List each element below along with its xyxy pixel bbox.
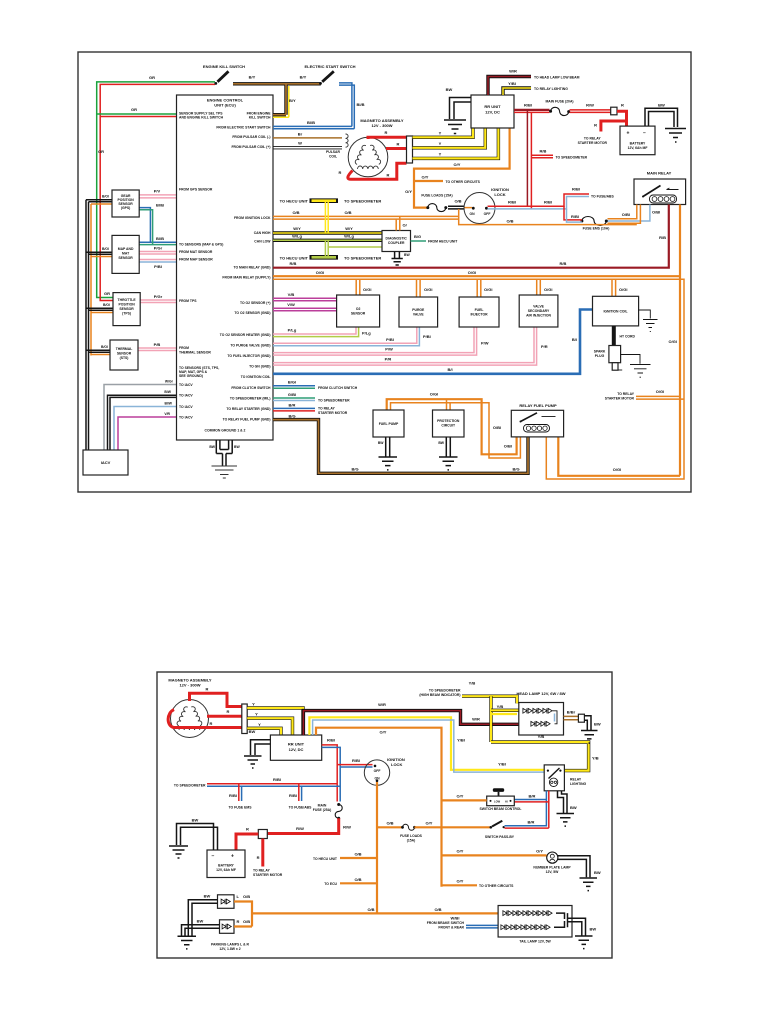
- svg-text:W: W: [298, 141, 302, 146]
- svg-text:TO HECU UNIT: TO HECU UNIT: [280, 255, 309, 260]
- parking lamp R: [220, 920, 235, 934]
- wire P/B STS to ECU: [138, 348, 177, 351]
- wire O/B stub to HECU unit: [340, 857, 377, 859]
- svg-text:GR: GR: [104, 291, 110, 296]
- svg-text:TO IACV: TO IACV: [179, 394, 193, 398]
- wire B/G from HECU unit: [411, 240, 427, 242]
- wire R to battery bottom: [236, 834, 258, 850]
- wire Y/B bus to relay lighting: [491, 742, 589, 771]
- ECU right pin labels: [216, 112, 271, 422]
- battery connector: [611, 107, 617, 115]
- svg-text:B/Ol: B/Ol: [102, 247, 109, 251]
- relay lighting: [544, 765, 564, 791]
- ECU common ground symbol: [216, 440, 232, 454]
- svg-text:O/B: O/B: [344, 210, 351, 215]
- wire R/Bl branch to ignition lock: [337, 764, 372, 766]
- svg-text:B/Ol: B/Ol: [101, 345, 108, 349]
- wire W/Lg CAN low: [273, 239, 382, 242]
- wire G/Bl to speedometer: [273, 397, 315, 399]
- head lamp filaments: [523, 708, 532, 713]
- wire R magneto phase 3 bottom: [168, 710, 242, 728]
- svg-text:12V, 5W: 12V, 5W: [546, 870, 559, 874]
- svg-text:O/Bl: O/Bl: [493, 425, 501, 430]
- svg-text:R/Bl: R/Bl: [327, 738, 335, 743]
- svg-text:BW: BW: [378, 441, 384, 445]
- svg-text:P/Gr: P/Gr: [154, 294, 163, 299]
- wire O/Gl stub O2 sensor: [356, 279, 360, 295]
- svg-text:BW: BW: [594, 722, 601, 727]
- svg-text:O/Gl: O/Gl: [316, 270, 324, 275]
- wire O/Y from RR unit to ignition circuit: [414, 128, 510, 208]
- fuel injector box: [459, 297, 499, 327]
- wire W/R head lamp feed: [303, 711, 518, 735]
- svg-text:LOCK: LOCK: [494, 192, 505, 197]
- wire W/Gr to IACV: [104, 385, 177, 451]
- main fuse 20A: [549, 110, 552, 113]
- svg-text:B/G: B/G: [414, 234, 421, 239]
- svg-text:MAT: MAT: [122, 252, 130, 256]
- svg-text:V/B: V/B: [288, 292, 295, 297]
- wire B/Br head lamp out: [564, 716, 579, 719]
- svg-text:SPARK: SPARK: [594, 350, 606, 354]
- fuse EMS 10A: [580, 220, 583, 223]
- svg-text:12V, DC: 12V, DC: [485, 110, 500, 115]
- svg-text:SENSOR: SENSOR: [117, 352, 132, 356]
- wire B/Ol black-orange bundle left: [86, 200, 112, 450]
- svg-text:B/R: B/R: [529, 794, 536, 799]
- svg-text:O/Gl: O/Gl: [484, 287, 492, 292]
- ground BW parking lamps: [188, 900, 217, 936]
- svg-text:P/R: P/R: [385, 357, 392, 362]
- wire R/W main fuse to battery connector: [267, 818, 338, 833]
- svg-text:R/W: R/W: [296, 826, 304, 831]
- svg-text:O/Y: O/Y: [380, 730, 387, 735]
- svg-text:W/R: W/R: [472, 717, 480, 722]
- wire O/Y main lighting bus: [316, 728, 442, 887]
- throttle position sensor box: [113, 293, 140, 326]
- svg-text:(STS): (STS): [120, 356, 129, 360]
- wire BW ground left of RR unit: [450, 98, 472, 120]
- wire P/V GPS to ECU: [139, 195, 177, 198]
- svg-text:R: R: [385, 130, 388, 135]
- svg-text:TO IACV: TO IACV: [179, 415, 193, 419]
- svg-text:R/Bl: R/Bl: [572, 187, 580, 192]
- svg-text:O/Gl: O/Gl: [656, 389, 664, 394]
- wire R to relay starter motor bottom: [261, 839, 264, 867]
- svg-text:−: −: [212, 854, 215, 860]
- svg-text:BW: BW: [658, 103, 665, 108]
- svg-text:P/W: P/W: [385, 347, 393, 352]
- svg-text:B/Y: B/Y: [289, 98, 296, 103]
- wire R/Bl vertical pair from main fuse: [526, 110, 528, 206]
- svg-text:BW: BW: [446, 87, 453, 92]
- svg-text:O/Y: O/Y: [405, 189, 412, 194]
- svg-text:Y: Y: [439, 141, 442, 146]
- svg-text:FROM ELECTRIC START SWITCH: FROM ELECTRIC START SWITCH: [216, 126, 271, 130]
- wire O/Gl stub valve secondary air injection: [537, 279, 541, 295]
- svg-text:Bl/B: Bl/B: [156, 203, 164, 208]
- wire O/Gl stub fuel injector: [477, 279, 481, 297]
- svg-text:SWITCH PASS-BY: SWITCH PASS-BY: [485, 835, 515, 839]
- wire GR branch into ECU: [97, 113, 177, 115]
- svg-text:B/G: B/G: [512, 467, 519, 472]
- svg-text:RR UNIT: RR UNIT: [288, 742, 305, 747]
- svg-text:TO MAIN RELAY (GND): TO MAIN RELAY (GND): [233, 266, 270, 270]
- ground BW relay lighting: [558, 791, 568, 813]
- wire Y phase 2 to RR bottom: [247, 718, 292, 735]
- svg-text:12V, 1.8W x 2: 12V, 1.8W x 2: [219, 947, 240, 951]
- ignition coil box: [593, 296, 639, 326]
- wire Br to pulsar coil: [273, 137, 342, 139]
- svg-text:VALVE: VALVE: [533, 305, 545, 309]
- svg-text:FROM MAIN RELAY (SUPPLY): FROM MAIN RELAY (SUPPLY): [222, 276, 270, 280]
- svg-text:R/Bl: R/Bl: [352, 758, 360, 763]
- RR unit box bottom: [270, 735, 321, 760]
- number plate lamp: [547, 852, 558, 863]
- svg-text:FROM PULSAR COIL (-): FROM PULSAR COIL (-): [232, 135, 270, 139]
- svg-text:O/Bl: O/Bl: [652, 210, 660, 215]
- wire R to battery plus: [617, 111, 627, 126]
- wire R/Bl to speedometer: [207, 783, 337, 785]
- svg-text:Bl/B: Bl/B: [156, 236, 164, 241]
- svg-text:POSITION: POSITION: [118, 303, 135, 307]
- wire W/Y CAN high: [273, 231, 382, 234]
- svg-text:STARTER MOTOR: STARTER MOTOR: [578, 141, 608, 145]
- svg-text:R: R: [246, 827, 249, 832]
- svg-text:RR UNIT: RR UNIT: [484, 104, 501, 109]
- svg-text:COIL: COIL: [329, 155, 337, 159]
- ground BW tail lamp: [568, 918, 586, 935]
- svg-text:R: R: [206, 687, 209, 692]
- svg-text:AIR INJECTION: AIR INJECTION: [526, 314, 551, 318]
- wire B/R to relay starter: [273, 407, 315, 409]
- svg-text:TO GN (GND): TO GN (GND): [249, 364, 270, 368]
- svg-text:CAN LOW: CAN LOW: [254, 240, 271, 244]
- svg-text:COUPLER: COUPLER: [388, 241, 405, 245]
- svg-text:TO RELAY LIGHTING: TO RELAY LIGHTING: [534, 87, 568, 91]
- svg-text:SENSOR: SENSOR: [119, 307, 134, 311]
- svg-text:B/l: B/l: [572, 337, 577, 342]
- HT cord: [612, 326, 616, 346]
- wire Y/Bl relay lighting feed: [309, 717, 544, 770]
- svg-text:PULSAR: PULSAR: [326, 150, 340, 154]
- svg-text:R: R: [210, 721, 213, 726]
- svg-text:Y/B: Y/B: [497, 704, 504, 709]
- svg-text:TO SPEEDOMETER (MIL): TO SPEEDOMETER (MIL): [230, 397, 271, 401]
- protection circuit box: [433, 410, 465, 437]
- svg-text:B/W: B/W: [164, 390, 171, 394]
- svg-text:FROM CLUTCH SWITCH: FROM CLUTCH SWITCH: [318, 386, 358, 390]
- svg-text:B/Y: B/Y: [249, 75, 256, 80]
- wire B/l to ignition coil: [273, 310, 593, 374]
- svg-text:Bl/B: Bl/B: [357, 102, 365, 107]
- wire Bl/B start switch to ECU: [273, 83, 352, 127]
- svg-text:O/Bl: O/Bl: [622, 212, 630, 217]
- svg-text:PROTECTION: PROTECTION: [437, 419, 460, 423]
- svg-text:BW: BW: [590, 927, 597, 932]
- svg-text:ON: ON: [469, 212, 475, 216]
- svg-text:R/Bl: R/Bl: [273, 777, 281, 782]
- wire V/R to IACV: [118, 417, 177, 450]
- svg-text:12V, DC: 12V, DC: [289, 747, 304, 752]
- purge valve box: [399, 297, 438, 327]
- svg-text:KILL SWITCH: KILL SWITCH: [249, 116, 271, 120]
- svg-text:B/G: B/G: [351, 467, 358, 472]
- wire P/Bl to purge valve: [273, 327, 417, 343]
- wire B/G to relay fuel pump: [273, 420, 528, 474]
- svg-text:B/G: B/G: [288, 414, 295, 419]
- svg-text:GR: GR: [149, 75, 155, 80]
- pulsar coil: [346, 134, 349, 147]
- wire R/Bl RR unit to main fuse: [514, 109, 550, 111]
- svg-text:TO FUSE/ABS: TO FUSE/ABS: [289, 806, 312, 810]
- svg-text:P/R: P/R: [541, 344, 548, 349]
- svg-text:STARTER MOTOR: STARTER MOTOR: [253, 873, 283, 877]
- svg-text:TO O2 SENSOR (GND): TO O2 SENSOR (GND): [234, 311, 270, 315]
- wire R magneto phase 2: [386, 147, 407, 150]
- wire O/B parking lamps joint: [234, 902, 252, 927]
- svg-text:TO O2 SENSOR HEATER (GND): TO O2 SENSOR HEATER (GND): [220, 333, 271, 337]
- wire R magneto phase 2 bottom: [207, 715, 242, 718]
- svg-text:R: R: [227, 709, 230, 714]
- svg-text:Y: Y: [252, 702, 255, 707]
- wire B/Y kill switch to ECU and start switch: [233, 84, 321, 115]
- wire P/R to valve secondary air injection: [273, 327, 537, 365]
- wire V/W to O2 sensor: [273, 308, 337, 311]
- svg-text:Y/B: Y/B: [592, 756, 599, 761]
- svg-text:B/l: B/l: [447, 367, 452, 372]
- svg-text:SEE GROUND): SEE GROUND): [179, 374, 203, 378]
- svg-text:TO FUEL INJECTOR (GND): TO FUEL INJECTOR (GND): [227, 354, 270, 358]
- svg-text:O/B: O/B: [354, 877, 361, 882]
- svg-text:O/B: O/B: [454, 199, 461, 204]
- ground right of spark plug: [621, 355, 640, 364]
- svg-text:BW: BW: [209, 445, 215, 449]
- svg-text:Y/B: Y/B: [469, 681, 476, 686]
- wire W/R to head lamp low beam: [488, 77, 531, 96]
- wire R/B stub to speedometer: [531, 155, 553, 158]
- RR unit box: [471, 95, 514, 128]
- svg-text:R/W: R/W: [586, 103, 594, 108]
- svg-text:(HIGH BEAM INDICATOR): (HIGH BEAM INDICATOR): [419, 693, 460, 697]
- wire R to relay starter motor: [601, 121, 627, 132]
- svg-text:O/Y: O/Y: [457, 794, 464, 799]
- svg-text:BW: BW: [249, 729, 256, 734]
- wire O/Gl stub ignition coil: [612, 279, 616, 296]
- svg-text:12V, 6Ah MF: 12V, 6Ah MF: [628, 146, 648, 150]
- svg-text:FROM: FROM: [179, 346, 189, 350]
- svg-text:G/Bl: G/Bl: [288, 392, 296, 397]
- svg-text:HT CORD: HT CORD: [620, 335, 636, 339]
- wire B/Gl from clutch switch: [273, 385, 315, 387]
- wire Y/Bl to relay lighting: [503, 88, 531, 95]
- svg-text:ON: ON: [374, 777, 380, 781]
- svg-text:TO OTHER CIRCUITS: TO OTHER CIRCUITS: [446, 180, 481, 184]
- wire P/Lg to O2 sensor heater: [273, 327, 356, 334]
- ground below protection circuit: [446, 437, 450, 457]
- svg-text:FROM IGNITION LOCK: FROM IGNITION LOCK: [234, 216, 271, 220]
- svg-text:DIAGNOSTIC: DIAGNOSTIC: [386, 237, 408, 241]
- svg-text:FROM GPS SENSOR: FROM GPS SENSOR: [179, 188, 213, 192]
- wire O/B ECU from ignition lock: [273, 216, 459, 219]
- svg-text:TO HECU UNIT: TO HECU UNIT: [313, 857, 338, 861]
- svg-text:TO RELAY STARTER (GND): TO RELAY STARTER (GND): [226, 407, 270, 411]
- svg-text:R: R: [257, 855, 260, 860]
- svg-text:FUEL PUMP: FUEL PUMP: [379, 422, 399, 426]
- svg-text:O/B: O/B: [243, 919, 250, 924]
- O2 sensor box: [337, 295, 380, 327]
- svg-text:R/B: R/B: [290, 261, 297, 266]
- svg-text:Bl/B: Bl/B: [307, 120, 315, 125]
- svg-text:GR: GR: [131, 107, 137, 112]
- wire Y phase 3 to RR unit: [413, 128, 499, 158]
- svg-text:O/B: O/B: [434, 907, 441, 912]
- wire R/Bl RR to main fuse: [322, 745, 338, 802]
- svg-text:O/B: O/B: [354, 852, 361, 857]
- svg-text:R: R: [397, 142, 400, 147]
- thermal sensor box: [110, 340, 138, 370]
- svg-text:O/Gl: O/Gl: [669, 339, 677, 344]
- fuel pump box: [373, 410, 404, 437]
- svg-text:TO OTHER CIRCUITS: TO OTHER CIRCUITS: [479, 884, 514, 888]
- svg-text:B/R: B/R: [289, 403, 296, 408]
- svg-text:B/Ol: B/Ol: [102, 195, 109, 199]
- ground BW number plate lamp: [558, 856, 590, 878]
- svg-text:PLUG: PLUG: [595, 354, 605, 358]
- svg-text:FUSE EMS (10A): FUSE EMS (10A): [583, 227, 610, 231]
- svg-text:W/Lg: W/Lg: [344, 234, 354, 239]
- svg-text:+: +: [231, 854, 234, 860]
- wire B/R relay to beam control and pass-by: [505, 791, 547, 826]
- joint bar fuse loads to ignition lock: [448, 206, 464, 209]
- svg-text:BW: BW: [570, 805, 577, 810]
- valve secondary air injection box: [519, 295, 558, 327]
- svg-text:TO SPEEDOMETER: TO SPEEDOMETER: [344, 199, 381, 204]
- tail lamp box: [498, 906, 572, 938]
- wire O/Y to number plate lamp: [442, 854, 547, 856]
- svg-text:W/R: W/R: [378, 702, 386, 707]
- svg-text:FROM CLUTCH SWITCH: FROM CLUTCH SWITCH: [231, 386, 271, 390]
- svg-text:TO SPEEDOMETER: TO SPEEDOMETER: [174, 784, 206, 788]
- wire W to pulsar coil: [273, 147, 342, 149]
- svg-text:R: R: [387, 173, 390, 178]
- wire R/Bl ignition lock to fuse EMS and fuse ABS: [488, 194, 590, 206]
- panel frame bottom diagram: [157, 672, 612, 958]
- svg-text:TAIL LAMP 12V, 5W: TAIL LAMP 12V, 5W: [519, 940, 551, 944]
- svg-text:TO SENSORS (MAP & GPS): TO SENSORS (MAP & GPS): [179, 243, 223, 247]
- svg-text:W/Y: W/Y: [345, 226, 353, 231]
- wire R/Bl stub to fuse ABS: [298, 784, 300, 801]
- svg-text:R/B: R/B: [540, 149, 547, 154]
- svg-text:ELECTRIC START SWITCH: ELECTRIC START SWITCH: [304, 64, 355, 69]
- wire BW battery to ground: [645, 108, 678, 127]
- svg-text:Y: Y: [255, 712, 258, 717]
- svg-text:O/Bl: O/Bl: [504, 444, 512, 449]
- wire R magneto phase 3: [348, 163, 407, 179]
- svg-text:12V - 300W: 12V - 300W: [179, 683, 200, 688]
- svg-text:R/Bl: R/Bl: [524, 103, 532, 108]
- svg-text:B/Br: B/Br: [567, 710, 576, 715]
- ignition lock bottom: [364, 760, 389, 785]
- wire O/Gl ECU supply bus from main relay: [273, 205, 680, 476]
- svg-text:R/Bl: R/Bl: [571, 214, 579, 219]
- svg-text:THERMAL SENSOR: THERMAL SENSOR: [179, 351, 211, 355]
- svg-text:P/V: P/V: [154, 189, 161, 194]
- svg-text:BW: BW: [192, 818, 199, 823]
- svg-text:W/Gr: W/Gr: [165, 380, 174, 384]
- wire V/B to O2 sensor: [273, 298, 337, 301]
- svg-text:SWITCH BEAM CONTROL: SWITCH BEAM CONTROL: [479, 807, 521, 811]
- svg-text:INJECTOR: INJECTOR: [470, 313, 488, 317]
- wire R magneto phase 1 bottom: [190, 693, 242, 706]
- svg-text:P/Bl: P/Bl: [154, 264, 162, 269]
- svg-text:O2: O2: [356, 307, 361, 311]
- wire O/B stub to ECU: [340, 882, 377, 884]
- tail lamp internal bracket: [554, 913, 568, 927]
- svg-text:O/Y: O/Y: [422, 175, 429, 180]
- svg-text:+: +: [627, 131, 630, 137]
- svg-text:P/B: P/B: [154, 342, 161, 347]
- svg-text:RELAY: RELAY: [570, 778, 582, 782]
- svg-text:TO IACV: TO IACV: [179, 383, 193, 387]
- svg-text:TO IACV: TO IACV: [179, 405, 193, 409]
- svg-text:O/Y: O/Y: [457, 879, 464, 884]
- svg-text:Bl/W: Bl/W: [164, 402, 172, 406]
- svg-text:TO RELAY FUEL PUMP (GND): TO RELAY FUEL PUMP (GND): [223, 417, 271, 421]
- wire O/B to fuse loads 15A: [377, 826, 402, 828]
- svg-text:TO SPEEDOMETER: TO SPEEDOMETER: [344, 255, 381, 260]
- svg-text:AND ENGINE KILL SWITCH: AND ENGINE KILL SWITCH: [179, 116, 224, 120]
- svg-text:V/R: V/R: [164, 412, 170, 416]
- svg-text:THERMAL: THERMAL: [116, 347, 133, 351]
- wire O/Gl feed to fuel pump and protection circuit: [387, 399, 517, 454]
- magneto output connector: [407, 136, 413, 163]
- wire P/Bl MAP to ECU: [139, 259, 177, 261]
- battery 12V 6Ah MF: [620, 126, 655, 155]
- svg-text:CIRCUIT: CIRCUIT: [441, 424, 456, 428]
- svg-text:SENSOR: SENSOR: [118, 256, 133, 260]
- ground BW left of battery: [177, 824, 218, 851]
- svg-text:(15A): (15A): [407, 838, 415, 842]
- MAP and MAT sensor box: [112, 235, 139, 273]
- svg-text:LOW: LOW: [494, 799, 501, 803]
- svg-text:TO ECU: TO ECU: [324, 882, 337, 886]
- svg-text:BW: BW: [204, 894, 211, 899]
- svg-text:LIGHTING: LIGHTING: [570, 782, 587, 786]
- wire P/Gr MAT to ECU: [139, 251, 177, 253]
- gear position sensor box: [112, 190, 139, 217]
- svg-text:W/R: W/R: [509, 69, 517, 74]
- diagnostic coupler: [382, 231, 411, 252]
- svg-text:OFF: OFF: [484, 212, 491, 216]
- engine control unit ECU box: [177, 95, 274, 440]
- svg-text:P/Lg: P/Lg: [362, 331, 371, 336]
- svg-text:OFF: OFF: [374, 769, 381, 773]
- svg-text:O/Y: O/Y: [457, 849, 464, 854]
- wire O/Gl stub purge valve: [417, 279, 421, 297]
- svg-text:R: R: [237, 919, 240, 924]
- svg-text:P/W: P/W: [481, 341, 489, 346]
- svg-text:TO RELAY: TO RELAY: [617, 392, 635, 396]
- svg-text:MAP AND: MAP AND: [118, 247, 134, 251]
- parking lamp L: [218, 895, 235, 909]
- wire Y phase 1 to RR bottom: [247, 708, 303, 735]
- svg-text:SENSOR: SENSOR: [351, 312, 366, 316]
- IACV box: [83, 450, 128, 475]
- svg-text:BATTERY: BATTERY: [218, 864, 234, 868]
- svg-text:P/Bl: P/Bl: [423, 334, 431, 339]
- svg-text:O/Gl: O/Gl: [613, 467, 621, 472]
